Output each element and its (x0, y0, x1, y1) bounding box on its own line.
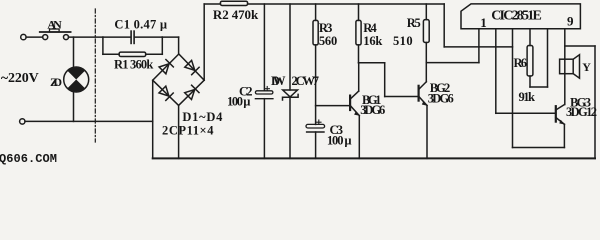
wire IC pin 2 to BG3 base vertical (495, 29, 497, 114)
svg-text:3DG6: 3DG6 (360, 103, 385, 117)
bridge diamond (153, 54, 205, 105)
wire bridge bottom to ground rail (178, 105, 180, 158)
svg-text:C1 0.47 µ: C1 0.47 µ (114, 18, 167, 32)
wire top rail (248, 3, 445, 5)
wire C1 branch left (103, 36, 130, 38)
diode D4 bottom-right (185, 85, 199, 99)
wire C2 lower (263, 99, 265, 159)
resistor R2 (220, 1, 247, 5)
wire BG1 emitter to ground (358, 116, 360, 159)
svg-text:560: 560 (319, 34, 337, 48)
wire BG3 base horizontal (496, 112, 556, 114)
svg-text:AN: AN (47, 18, 62, 32)
wire BG3 emitter vertical (563, 124, 565, 147)
dashed boundary line (94, 9, 96, 142)
ground rail (153, 157, 595, 159)
wire C1R1 loop left (102, 37, 104, 54)
resistor R6 (527, 46, 533, 77)
wire switch to C1 loop (69, 36, 103, 38)
svg-text:9: 9 (567, 14, 574, 29)
wire BG2 base vertical (384, 63, 386, 97)
resistor R4 (356, 20, 361, 45)
wire R6 return horizontal (530, 86, 548, 88)
wire terminal to switch (26, 36, 43, 38)
wire bridge left to ground rail (152, 80, 154, 158)
wire power feed to IC pin (444, 46, 512, 48)
svg-text:16k: 16k (363, 34, 382, 48)
resistor R5 (423, 20, 429, 43)
diode D1 top-left (159, 60, 173, 74)
wire to bridge (162, 36, 178, 38)
wire DW lower (289, 97, 291, 158)
svg-text:2CP11×4: 2CP11×4 (162, 123, 214, 137)
capacitor C3 (306, 120, 325, 132)
svg-text:2CW7: 2CW7 (292, 74, 320, 88)
wire IC pin 1 (478, 29, 480, 63)
wire top rail end down (443, 4, 445, 47)
wire C1 branch right (135, 36, 163, 38)
wire ZD branch lower (73, 92, 75, 122)
wire bridge top feed (178, 37, 180, 54)
wire R4 lower (358, 45, 360, 63)
transistor BG3 (556, 105, 565, 125)
wire bridge right to top rail (203, 4, 205, 80)
svg-text:DW: DW (271, 74, 286, 88)
svg-text:510: 510 (393, 34, 413, 48)
svg-text:3DG12: 3DG12 (566, 105, 597, 119)
wire speaker node to right (565, 45, 595, 47)
wire C3 lower (315, 132, 317, 158)
wire C2 upper (263, 4, 265, 91)
wire R3 lower to C3 (315, 45, 317, 125)
resistor R3 (313, 20, 318, 45)
speaker Y (560, 55, 580, 78)
wire BG2 base (385, 96, 419, 98)
zener DW (283, 90, 299, 100)
wire node to BG2 base horizontal (359, 62, 385, 64)
capacitor C2 (255, 87, 273, 99)
svg-text:91k: 91k (519, 90, 536, 104)
svg-text:ZD: ZD (50, 75, 62, 89)
wire BG3 emitter return horizontal (513, 147, 565, 149)
wire right edge down to ground (594, 46, 596, 158)
lamp ZD (64, 67, 89, 92)
svg-text:R2 470k: R2 470k (213, 7, 259, 22)
wire ZD branch upper (73, 37, 75, 68)
wire R3 upper (315, 4, 317, 20)
diode D3 bottom-left (159, 86, 173, 100)
diode D2 top-right (185, 60, 199, 74)
svg-text:CIC2851E: CIC2851E (491, 9, 542, 24)
wire BG2 emitter to ground (426, 106, 428, 159)
wire AC neutral rail (25, 120, 153, 122)
wire BG2 collector to IC pin 1 (426, 62, 479, 64)
svg-text:3DG6: 3DG6 (428, 92, 454, 106)
wire R5 upper (425, 4, 427, 20)
transistor BG2 (419, 82, 428, 106)
wire DW upper (289, 4, 291, 90)
wire IC pin 3 down (512, 29, 514, 148)
terminal top-left (21, 34, 26, 39)
wire R6 lower (529, 76, 531, 87)
wire top rail left (204, 3, 220, 5)
svg-text:D1~D4: D1~D4 (182, 110, 223, 124)
wire R6 upper pin (529, 29, 531, 46)
svg-text:100 µ: 100 µ (327, 133, 352, 147)
capacitor C1 (131, 31, 134, 43)
svg-text:1: 1 (480, 15, 487, 30)
svg-text:100 µ: 100 µ (227, 95, 251, 109)
switch AN button (50, 29, 60, 32)
switch AN pole left (43, 35, 48, 40)
wire R1 branch left (103, 53, 119, 55)
svg-text:R1 360k: R1 360k (114, 57, 153, 71)
wire BG1 base (316, 105, 351, 107)
terminal bottom-left (20, 119, 25, 124)
svg-text:Y: Y (582, 60, 591, 74)
svg-text:Q606.COM: Q606.COM (0, 152, 57, 166)
wire R6 return to IC pin (547, 29, 549, 87)
wire C1R1 loop right (161, 37, 163, 54)
wire BG2 collector to R5 (425, 43, 427, 82)
svg-text:R6: R6 (514, 56, 528, 70)
switch AN blade (40, 31, 71, 33)
op-amp U1 CIC2851E outline (461, 4, 580, 29)
transistor BG1 (350, 91, 359, 116)
wire BG1 collector (358, 63, 360, 91)
svg-text:R5: R5 (407, 16, 421, 30)
wire R4 upper (358, 4, 360, 20)
resistor R1 (119, 52, 146, 56)
wire IC pin to speaker and BG3 collector (564, 29, 566, 105)
svg-text:~220V: ~220V (1, 71, 39, 86)
switch AN pole right (64, 35, 69, 40)
wire R1 branch right (146, 53, 163, 55)
